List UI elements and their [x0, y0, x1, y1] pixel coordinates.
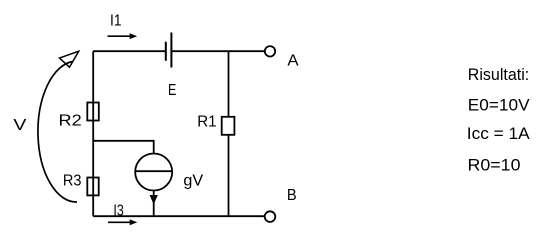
wire R1 branch lower (R1 down to bottom rail) — [228, 135, 230, 216]
wire current source to bottom rail with current direction arrow — [150, 191, 158, 217]
current arrow I1 — [108, 33, 138, 39]
voltage arc V — [38, 62, 77, 203]
svg-text:R2: R2 — [59, 112, 82, 129]
label I1 — [110, 13, 122, 30]
open arrowhead of voltage arc — [60, 51, 79, 67]
current arrow I3 — [108, 219, 137, 225]
svg-text:R1: R1 — [197, 113, 216, 130]
svg-text:R0=10: R0=10 — [468, 156, 521, 175]
resistor R3 (wire visible through box) — [87, 178, 98, 196]
svg-text:A: A — [287, 52, 299, 69]
svg-text:B: B — [287, 187, 297, 204]
results text line Risultati: — [468, 65, 529, 84]
wire left branch upper (top-left corner down to R2) — [92, 51, 94, 177]
label E — [168, 82, 176, 99]
label I3 — [113, 202, 123, 219]
svg-text:gV: gV — [183, 172, 203, 189]
label R3 — [63, 172, 82, 189]
current source gV circle with horizontal bar — [135, 154, 172, 191]
label B — [287, 187, 297, 204]
label V — [13, 117, 27, 134]
wire left branch lower (R3 to bottom-left corner) — [92, 178, 94, 217]
label R1 — [197, 113, 216, 130]
resistor R1 — [222, 117, 235, 135]
svg-text:Risultati:: Risultati: — [468, 65, 529, 84]
svg-text:Icc = 1A: Icc = 1A — [467, 124, 530, 143]
results text line R0=10 — [468, 156, 521, 175]
label A — [287, 52, 299, 69]
results text line Icc = 1A — [467, 124, 530, 143]
battery E plates — [166, 33, 172, 68]
wire battery positive plate to terminal A — [171, 50, 264, 52]
svg-text:V: V — [13, 117, 27, 134]
resistor R2 (wire visible through box) — [87, 103, 99, 121]
wire top-left horizontal (top-left corner to battery negative plate) — [93, 50, 166, 52]
terminal A circle — [265, 46, 275, 56]
wire tap junction to current source (horizontal then down) — [93, 141, 154, 154]
results text line E0=10V — [468, 96, 530, 115]
wire R1 branch upper (top rail junction down to R1) — [228, 51, 230, 117]
svg-text:I3: I3 — [113, 202, 123, 219]
svg-text:I1: I1 — [110, 13, 122, 30]
terminal B circle — [265, 211, 276, 222]
label gV — [183, 172, 203, 189]
wire bottom rail — [93, 215, 265, 217]
label R2 — [59, 112, 82, 129]
svg-text:E: E — [168, 82, 176, 99]
svg-text:E0=10V: E0=10V — [468, 96, 530, 115]
svg-text:R3: R3 — [63, 172, 82, 189]
